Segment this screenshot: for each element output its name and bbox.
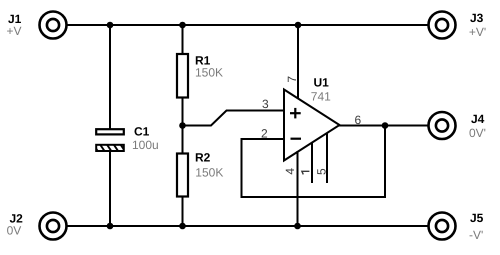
svg-text:7: 7 [285, 76, 299, 83]
svg-text:C1: C1 [134, 124, 150, 138]
svg-text:3: 3 [262, 97, 269, 111]
svg-text:0V: 0V [7, 224, 22, 238]
svg-text:150K: 150K [195, 65, 223, 79]
svg-text:+V': +V' [469, 25, 486, 39]
svg-text:741: 741 [311, 90, 331, 104]
svg-text:J4: J4 [471, 112, 485, 126]
svg-text:5: 5 [314, 168, 328, 175]
svg-text:4: 4 [283, 168, 297, 175]
svg-text:6: 6 [355, 113, 362, 127]
svg-text:+V: +V [7, 24, 22, 38]
svg-text:R2: R2 [195, 151, 211, 165]
svg-text:100u: 100u [132, 138, 159, 152]
svg-text:0V': 0V' [469, 126, 486, 140]
svg-text:2: 2 [261, 127, 268, 141]
svg-text:U1: U1 [314, 75, 330, 89]
svg-text:-V': -V' [469, 228, 483, 242]
svg-text:150K: 150K [195, 165, 223, 179]
svg-text:J3: J3 [470, 11, 484, 25]
svg-text:J5: J5 [470, 211, 484, 225]
